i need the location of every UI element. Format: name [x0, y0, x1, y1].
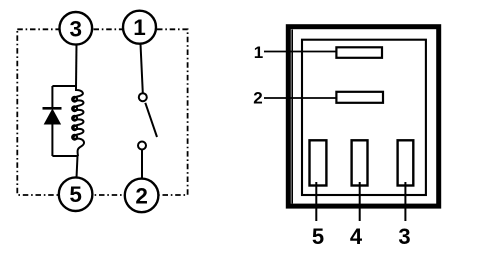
- pin 1 pad: [336, 47, 382, 58]
- leader line to pin 2: [264, 97, 338, 99]
- pin 2 pad: [336, 92, 383, 103]
- pin 4 pad: [352, 140, 368, 185]
- svg-text:1: 1: [254, 43, 263, 62]
- diode D1 triangle: [45, 110, 61, 125]
- wire from terminal 3 to coil junction: [75, 44, 78, 88]
- terminal 1: [123, 11, 156, 44]
- wire switch to terminal 2: [141, 150, 143, 179]
- dashed boundary box: [17, 29, 187, 195]
- svg-text:2: 2: [253, 89, 262, 108]
- wire coil to terminal 5: [77, 156, 78, 178]
- relay body inner outline: [302, 40, 426, 195]
- svg-text:1: 1: [133, 15, 146, 40]
- relay body outline left edge doubling: [291, 30, 293, 204]
- terminal 3: [60, 12, 93, 45]
- wire bottom bar: [52, 155, 78, 157]
- svg-text:3: 3: [398, 224, 410, 249]
- leader line to pin 1: [264, 51, 338, 53]
- switch fixed contact (upper): [139, 93, 147, 101]
- terminal 5: [59, 177, 93, 211]
- pin 5 pad: [310, 140, 327, 185]
- leader line to pin 5: [315, 182, 317, 221]
- diode lower wire: [51, 124, 53, 156]
- wire top bar to diode branch: [52, 85, 77, 87]
- diode anode wire: [51, 86, 53, 109]
- relay body outline (thick): [288, 27, 438, 206]
- svg-text:5: 5: [312, 224, 324, 249]
- svg-text:3: 3: [70, 16, 83, 41]
- svg-text:5: 5: [69, 182, 82, 207]
- svg-text:2: 2: [135, 183, 148, 208]
- wire terminal 1 to switch: [141, 44, 143, 93]
- switch blade: [145, 103, 157, 137]
- terminal 2: [125, 179, 159, 213]
- svg-text:4: 4: [350, 224, 363, 249]
- diode cathode bar: [43, 107, 62, 110]
- relay coil: [72, 86, 84, 156]
- switch moving contact (lower): [138, 142, 146, 150]
- leader line to pin 4: [359, 182, 361, 221]
- pin 3 pad: [398, 140, 414, 185]
- leader line to pin 3: [404, 182, 406, 221]
